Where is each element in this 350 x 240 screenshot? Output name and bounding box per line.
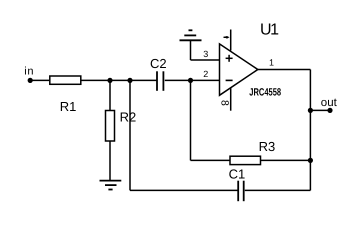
wire right rail vertical: [309, 70, 311, 191]
svg-text:in: in: [24, 65, 34, 77]
wire C1 to right rail: [245, 189, 311, 191]
wire R2 to ground: [109, 141, 111, 180]
wire node C to op-amp pin 2: [191, 79, 220, 81]
svg-text:U1: U1: [260, 21, 279, 38]
capacitor C2: [150, 56, 167, 91]
svg-text:8: 8: [219, 100, 231, 106]
svg-text:3: 3: [203, 49, 208, 59]
wire to out terminal: [310, 109, 330, 111]
svg-text:JRC4558: JRC4558: [249, 87, 281, 99]
resistor R2: [106, 110, 137, 141]
wire C1 rail left segment: [130, 189, 238, 191]
power pin 8 (top): [224, 30, 231, 51]
resistor R1: [50, 76, 81, 114]
junction node B: [127, 78, 132, 83]
svg-text:R2: R2: [120, 110, 137, 125]
junction node E: [308, 158, 313, 163]
wire C2 to node C: [165, 79, 191, 81]
wire op-amp output to right rail: [258, 69, 311, 71]
wire R3 to node E: [261, 159, 311, 161]
wire R1 to node A: [81, 79, 110, 81]
junction node A: [107, 78, 112, 83]
svg-text:R3: R3: [259, 139, 276, 154]
junction node D (out tap): [308, 108, 313, 113]
resistor R3: [230, 139, 275, 164]
wire node C down to feedback: [190, 80, 192, 160]
ground (top, at op-amp pin 3): [180, 30, 202, 60]
svg-text:out: out: [321, 97, 338, 109]
ground (bottom, below R2): [100, 181, 122, 190]
wire ground to op-amp pin 3: [191, 59, 220, 61]
wire node B to C2: [130, 79, 157, 81]
node in: [24, 65, 34, 83]
svg-text:C1: C1: [229, 166, 246, 181]
svg-text:2: 2: [203, 69, 208, 79]
svg-text:R1: R1: [60, 99, 77, 114]
node out: [321, 97, 338, 113]
wire node A down to R2: [109, 80, 111, 110]
capacitor C1: [229, 166, 246, 201]
wire node B down to C1 rail: [129, 80, 131, 190]
svg-text:C2: C2: [150, 56, 167, 71]
wire in to R1: [30, 79, 49, 81]
wire node A to node B: [110, 79, 130, 81]
junction node C: [188, 78, 193, 83]
wire feedback to R3: [191, 159, 231, 161]
power pin 4 (bottom): [219, 88, 231, 111]
op-amp U1: [220, 21, 282, 98]
svg-text:1: 1: [269, 57, 274, 67]
